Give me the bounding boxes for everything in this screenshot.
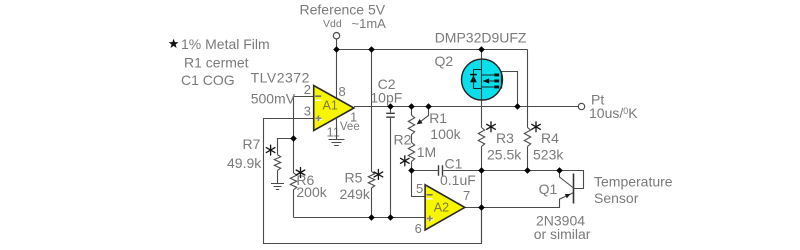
svg-text:R1: R1 xyxy=(429,110,447,126)
wire: A1 pin 11 drop xyxy=(336,118,338,140)
svg-text:Vee: Vee xyxy=(340,121,360,133)
star for 1% note xyxy=(169,39,179,48)
svg-text:R1 cermet: R1 cermet xyxy=(184,54,249,70)
terminal: Vdd input xyxy=(333,33,339,39)
svg-text:Vdd: Vdd xyxy=(323,18,342,30)
junction dots xyxy=(290,46,563,221)
svg-text:1M: 1M xyxy=(417,144,436,160)
svg-text:A1: A1 xyxy=(323,99,338,113)
resistor R4 523k xyxy=(527,50,529,128)
ground under A1 pin 11 xyxy=(329,140,345,146)
svg-text:or similar: or similar xyxy=(534,226,591,242)
arrow on Q1 emitter xyxy=(565,194,571,198)
resistor R5 249k xyxy=(371,50,373,172)
mosfet Q2 DMP32D9UFZ xyxy=(462,59,503,100)
svg-text:10us/0K: 10us/0K xyxy=(589,105,638,121)
resistor R2 1M xyxy=(408,143,414,162)
asterisk for R2 xyxy=(400,156,409,166)
asterisk for R3 xyxy=(487,122,496,132)
svg-text:500mV: 500mV xyxy=(251,90,296,106)
svg-text:523k: 523k xyxy=(533,147,564,163)
wire: lower rail left segment xyxy=(412,170,438,172)
svg-text:3: 3 xyxy=(304,103,311,118)
svg-text:10pF: 10pF xyxy=(370,90,402,106)
wire: A2 output to Q1 emitter xyxy=(465,193,574,208)
svg-text:100k: 100k xyxy=(430,126,461,142)
svg-text:R4: R4 xyxy=(541,130,559,146)
svg-text:Q2: Q2 xyxy=(435,53,454,69)
asterisk for R5 xyxy=(374,169,383,179)
resistor R7 49.9k to ground xyxy=(278,139,294,155)
svg-text:25.5k: 25.5k xyxy=(487,147,522,163)
svg-text:Temperature: Temperature xyxy=(594,174,673,190)
svg-text:200k: 200k xyxy=(296,184,327,200)
wire: A2 pin 6 input wire xyxy=(294,217,426,219)
wire: A1 output to Pt terminal xyxy=(354,106,578,108)
svg-text:R7: R7 xyxy=(243,136,261,152)
svg-text:TLV2372: TLV2372 xyxy=(251,70,310,86)
svg-text:1% Metal Film: 1% Metal Film xyxy=(181,36,270,52)
svg-text:249k: 249k xyxy=(340,186,371,202)
svg-text:R2: R2 xyxy=(394,131,412,147)
svg-text:C1 COG: C1 COG xyxy=(181,72,235,88)
svg-text:Q1: Q1 xyxy=(539,181,558,197)
svg-text:Sensor: Sensor xyxy=(594,190,639,206)
svg-text:6: 6 xyxy=(415,221,422,236)
wire: A1 pin 2 input xyxy=(294,96,314,98)
svg-text:7: 7 xyxy=(463,188,470,203)
svg-text:C1: C1 xyxy=(445,156,463,172)
wire: A1 pin 8 riser xyxy=(336,50,338,99)
capacitor C2 10pF xyxy=(390,107,392,218)
wire: feedback loop A2 output to A1 pin 3 xyxy=(264,119,482,244)
asterisk for R7 xyxy=(266,145,275,155)
resistor R3 25.5k xyxy=(478,128,484,147)
wire: Vdd terminal stub xyxy=(336,39,338,50)
terminal: Pt output xyxy=(578,103,584,109)
svg-text:8: 8 xyxy=(339,84,346,99)
svg-text:R3: R3 xyxy=(496,130,514,146)
wire: lower rail right segment into Q1 base box xyxy=(443,171,583,189)
op-amp A1 TLV2372 xyxy=(314,86,354,131)
svg-text:11: 11 xyxy=(327,125,341,140)
svg-text:49.9k: 49.9k xyxy=(227,155,262,171)
wire: 5V supply rail xyxy=(337,49,528,51)
svg-text:R5: R5 xyxy=(345,170,363,186)
svg-text:~1mA: ~1mA xyxy=(352,16,387,31)
op-amp A2 xyxy=(425,185,465,230)
asterisk for R4 xyxy=(532,122,541,132)
transistor Q1 2N3904 (diode connected) xyxy=(560,171,574,204)
svg-text:DMP32D9UFZ: DMP32D9UFZ xyxy=(435,30,527,46)
ground under R7 xyxy=(271,184,284,190)
svg-text:5: 5 xyxy=(416,181,423,196)
wire: Q2 gate to Pt node xyxy=(501,72,518,107)
asterisk for R6 xyxy=(296,168,305,178)
resistor R6 200k xyxy=(293,97,295,173)
svg-text:A2: A2 xyxy=(434,201,449,215)
wire: Q2 source/drain column xyxy=(481,50,483,128)
wire: A2 pin 5 riser xyxy=(412,171,426,197)
wiper of R1 xyxy=(418,107,429,124)
capacitor C1 0.1uF xyxy=(439,165,443,175)
svg-text:0.1uF: 0.1uF xyxy=(440,172,476,188)
svg-text:2: 2 xyxy=(304,82,311,97)
resistor R1 100k trimmer xyxy=(411,107,413,116)
